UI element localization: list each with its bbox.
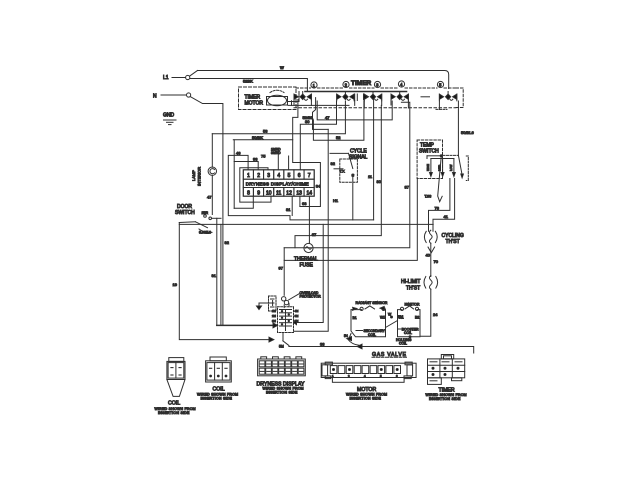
connector J1 dryness display/chime block [243,170,314,197]
timer dashed bracket right [456,88,463,108]
svg-text:2: 2 [345,83,348,88]
wire 92b rail [221,224,230,325]
svg-text:3M: 3M [272,319,277,323]
svg-text:5: 5 [288,173,291,179]
svg-text:MOTOR: MOTOR [245,101,264,107]
svg-text:RADIANT SENSOR: RADIANT SENSOR [356,301,388,305]
svg-text:75: 75 [261,154,266,159]
svg-text:4M: 4M [295,309,300,313]
timer box dashed top edge [296,87,457,89]
timer motor M1 symbol [267,90,300,105]
svg-text:52BK: 52BK [243,79,253,84]
svg-text:B1: B1 [353,316,357,320]
svg-text:SWITCH: SWITCH [175,210,195,216]
svg-text:6M: 6M [295,314,300,318]
dryness display labels [257,381,305,394]
svg-text:38: 38 [320,342,325,347]
timer connector [428,355,465,385]
svg-text:47: 47 [325,115,330,120]
svg-text:COIL: COIL [404,331,412,335]
wire routing rect B [234,140,258,209]
wire pin13/14 drop to thermal fuse [300,196,339,243]
timer cam switch 2 [337,92,354,101]
svg-text:2M: 2M [272,314,277,318]
svg-text:87: 87 [405,185,410,190]
svg-text:46: 46 [236,150,241,155]
svg-text:9: 9 [257,191,260,197]
wire bus under contacts [288,101,408,108]
coil 6-pin labels [197,386,238,400]
coil funnel connector [167,358,185,397]
gas valve label [372,352,407,358]
svg-text:DRYNESS DISPLAY/CHIME: DRYNESS DISPLAY/CHIME [246,182,309,187]
svg-text:3: 3 [376,83,379,88]
motor switch cluster dashed box [278,307,294,333]
temp switch label [419,143,439,155]
svg-text:54: 54 [344,334,348,338]
svg-text:97: 97 [279,266,284,271]
timer box dashed bottom edge [294,107,456,109]
node N [153,93,191,100]
timer cam switch 5 [439,92,456,101]
svg-text:78: 78 [435,205,440,210]
svg-text:4: 4 [400,82,403,87]
cycling thermostat [424,230,437,244]
wire 38 bottom line [289,342,474,353]
svg-text:L1: L1 [163,75,169,81]
svg-text:11: 11 [368,174,373,179]
svg-text:PROTECTOR: PROTECTOR [300,294,322,298]
temp switch external contact [458,155,468,180]
svg-text:50/BK: 50/BK [252,135,263,140]
ground chassis arrow [257,301,273,310]
wire 47 line [317,101,392,120]
wire routing rect C [240,168,271,202]
svg-text:19: 19 [173,282,178,287]
svg-text:4: 4 [277,173,280,179]
motor connector [321,362,416,382]
svg-text:5M: 5M [279,345,284,349]
svg-text:TIMER: TIMER [351,80,372,87]
svg-text:7: 7 [308,173,311,179]
timer connector labels [426,387,467,401]
dryness display connector [258,357,306,376]
svg-text:W: W [280,65,284,70]
timer motor dashed box [239,87,297,110]
timer cam switch 1 [294,92,311,101]
timer motor label [245,95,264,107]
wire temp switch to motor [284,179,417,261]
wire 97 vertical [279,248,285,295]
cycle signal dashed box [340,159,358,182]
svg-text:1: 1 [313,83,316,88]
cycling thermostat label [442,233,464,245]
wire 34 rail [293,100,321,207]
timer cam switch 4 [391,92,408,101]
svg-text:30/RD: 30/RD [271,151,281,155]
svg-text:93: 93 [253,157,258,162]
wire 92 rail [313,98,336,166]
motor switch cluster contacts [272,309,299,331]
svg-text:47: 47 [207,195,212,200]
wire rail 11 [368,100,374,220]
svg-text:FUSE: FUSE [300,263,314,269]
svg-text:W1: W1 [399,316,404,320]
svg-text:80: 80 [377,179,382,184]
svg-text:2: 2 [257,173,260,179]
svg-text:81: 81 [286,207,291,212]
svg-text:IGNITOR: IGNITOR [405,303,420,307]
svg-text:HIGH: HIGH [426,164,430,171]
timer terminal 5 drop wires [436,101,474,156]
booster/holding coil labels [396,316,419,346]
svg-text:LOW: LOW [449,164,453,171]
svg-text:SIGNAL: SIGNAL [349,155,368,161]
svg-text:SWITCH: SWITCH [419,149,439,155]
wire N drop to rail [190,97,223,225]
coil 6-pin connector [206,357,232,382]
wire pin12 drop [286,196,292,215]
timer terminal 5 [437,81,443,87]
svg-text:COIL: COIL [168,401,180,407]
motor connector labels [346,387,387,401]
timer terminal 1 [311,82,317,88]
wire cluster feed top [288,304,290,307]
svg-text:52: 52 [336,135,341,140]
svg-text:LAMP: LAMP [191,170,196,181]
gas valve booster/holding coil box [398,306,421,337]
svg-text:N: N [153,94,157,100]
wire rail 87 thermal fuse line [284,102,410,248]
svg-text:B2: B2 [415,316,419,320]
temp switch contact 3 [449,159,455,177]
wire thick motor feed [217,323,278,328]
temp switch dashed box [417,140,442,179]
svg-text:50/BL6: 50/BL6 [461,130,474,135]
svg-text:70: 70 [434,259,439,264]
temp switch contact 1 [426,159,432,177]
wire 50BK line [233,135,292,140]
temp switch blade to T.0S [425,157,443,202]
svg-text:92: 92 [225,240,230,245]
secondary coil labels [353,316,386,337]
wire between coils [386,313,404,328]
wire 24 to gas valve [420,289,438,336]
node L1 [163,75,190,81]
thermal fuse F1 [304,243,313,252]
wire rails to gas valve [294,129,329,331]
small dashed box left of cluster [269,296,277,311]
svg-text:INSERTION SIDE: INSERTION SIDE [266,391,298,395]
wire 41 line [433,179,455,230]
svg-text:13: 13 [296,191,302,197]
svg-text:41: 41 [444,214,449,219]
wire 30 line [300,101,336,170]
wire 5M switch [279,333,289,349]
timer terminal 2 [343,81,349,87]
svg-text:3: 3 [267,173,270,179]
svg-text:TX: TX [340,169,345,174]
wire 40 connector arrow [426,243,439,276]
wire top entry pin4 [271,148,281,170]
wire 91 rail [212,218,217,325]
wire W main line [190,65,449,89]
svg-text:INTERIOR: INTERIOR [197,167,202,186]
wire 52BL cell6 entry [303,115,314,120]
svg-text:24: 24 [433,312,438,317]
cycle signal switch [330,153,355,220]
coil funnel labels [155,401,196,415]
wire top entry pin5 [253,154,289,170]
thermal fuse label [294,257,318,269]
door switch [175,204,221,235]
svg-text:TH’ST: TH’ST [446,239,460,245]
gas valve secondary coil box [351,306,386,337]
timer terminal 4 [398,81,404,87]
timer terminal 3 [374,81,380,87]
svg-text:34: 34 [316,184,321,189]
wire 54 line [344,334,359,346]
timer extra contact bars [355,94,430,101]
timer cam switch 3 [364,92,381,101]
svg-text:1: 1 [247,173,250,179]
svg-text:TH’ST: TH’ST [406,286,420,292]
wire 19 door switch left rail [173,223,274,343]
svg-text:COIL: COIL [368,333,376,337]
svg-text:91: 91 [212,273,217,278]
svg-text:INSERTION SIDE: INSERTION SIDE [350,397,382,401]
wire routing rect A [228,150,373,220]
wire 52BK to timer terminal 1 [190,79,307,92]
wire 58 lamp line [212,101,345,134]
hi-limit thermostat [424,276,438,290]
wire N rail continue [222,224,224,325]
svg-text:INSERTION SIDE: INSERTION SIDE [158,411,190,415]
svg-text:63: 63 [302,201,307,206]
svg-text:GND: GND [163,113,175,119]
svg-text:H1: H1 [333,198,339,203]
wire 78 line [429,179,450,230]
svg-text:W1: W1 [380,316,385,320]
svg-text:0.0SE.0: 0.0SE.0 [199,231,211,235]
svg-text:67: 67 [312,232,317,237]
svg-text:92: 92 [331,161,336,166]
svg-text:40: 40 [426,253,431,258]
wire 52 line [313,101,364,140]
hi-limit label [401,279,420,292]
svg-text:58: 58 [263,129,268,134]
svg-text:COIL: COIL [399,341,407,345]
svg-text:INSERTION SIDE: INSERTION SIDE [201,396,233,400]
cycle signal label [349,149,368,161]
svg-text:11: 11 [276,191,281,197]
svg-text:5: 5 [439,83,442,88]
svg-text:6: 6 [298,173,301,179]
svg-text:HI-LIMIT: HI-LIMIT [401,279,420,285]
svg-text:T.0S: T.0S [425,195,433,199]
temp switch contact 2 [438,159,444,177]
svg-text:12: 12 [286,191,292,197]
svg-text:8: 8 [247,191,250,197]
wire rail 80 [295,105,382,247]
lamp interior [191,134,217,215]
temp switch node and wiring [427,155,458,159]
ground GND [163,113,176,125]
svg-text:INSERTION SIDE: INSERTION SIDE [429,397,461,401]
overload protector [282,291,322,308]
timer contact bus [305,91,407,93]
wire long horizontal [179,223,433,225]
